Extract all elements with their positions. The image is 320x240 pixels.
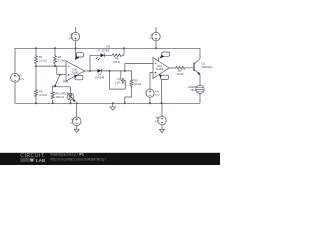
svg-text:V6: V6	[156, 116, 160, 120]
svg-text:D5: D5	[107, 45, 111, 49]
svg-text:LAB: LAB	[36, 158, 46, 163]
svg-text:5 V: 5 V	[155, 119, 159, 123]
svg-text:1N4148: 1N4148	[95, 76, 105, 80]
svg-text:10 kΩ: 10 kΩ	[134, 82, 141, 86]
svg-text:5 V: 5 V	[155, 93, 159, 97]
svg-text:R6 LDR1: R6 LDR1	[56, 91, 67, 95]
svg-text:R5: R5	[134, 78, 138, 82]
svg-text:LTL-307EE: LTL-307EE	[97, 48, 110, 52]
svg-text:3.3 kΩ: 3.3 kΩ	[39, 93, 47, 97]
svg-text:R3: R3	[39, 90, 43, 94]
svg-text:3.3 kΩ: 3.3 kΩ	[39, 58, 47, 62]
svg-text:3.3 kΩ: 3.3 kΩ	[58, 58, 66, 62]
svg-text:9 V: 9 V	[69, 36, 73, 40]
svg-text:V3: V3	[70, 32, 74, 36]
svg-text:VCC: VCC	[78, 55, 83, 57]
svg-text:10 kΩ: 10 kΩ	[177, 72, 184, 76]
svg-text:V2: V2	[71, 118, 75, 122]
svg-text:http://circuitlab.com/c/ad43kf: http://circuitlab.com/c/ad43kfr9b2q7	[51, 157, 107, 161]
svg-text:R1: R1	[39, 55, 43, 59]
svg-text:V5: V5	[150, 32, 154, 36]
svg-text:R2: R2	[58, 55, 62, 59]
svg-text:V1: V1	[19, 74, 23, 78]
svg-text:C1: C1	[117, 77, 121, 81]
svg-text:TL081: TL081	[156, 67, 164, 71]
svg-text:9 V: 9 V	[149, 36, 153, 40]
svg-text:5 V: 5 V	[70, 121, 74, 125]
svg-text:1 µF: 1 µF	[115, 80, 121, 84]
svg-text:VEE: VEE	[77, 78, 82, 80]
svg-text:100 Ω: 100 Ω	[113, 60, 120, 64]
svg-text:VCC: VCC	[164, 54, 169, 56]
svg-text:thatchpacheco / P1: thatchpacheco / P1	[51, 153, 85, 157]
svg-text:V4: V4	[155, 90, 159, 94]
svg-text:SW1: SW1	[63, 80, 69, 84]
svg-text:TL081: TL081	[71, 70, 79, 74]
svg-text:2N2222A: 2N2222A	[202, 65, 213, 69]
svg-text:12 V: 12 V	[19, 77, 25, 81]
svg-text:96 Ω: 96 Ω	[191, 88, 197, 92]
svg-text:740 kΩ: 740 kΩ	[56, 95, 64, 99]
